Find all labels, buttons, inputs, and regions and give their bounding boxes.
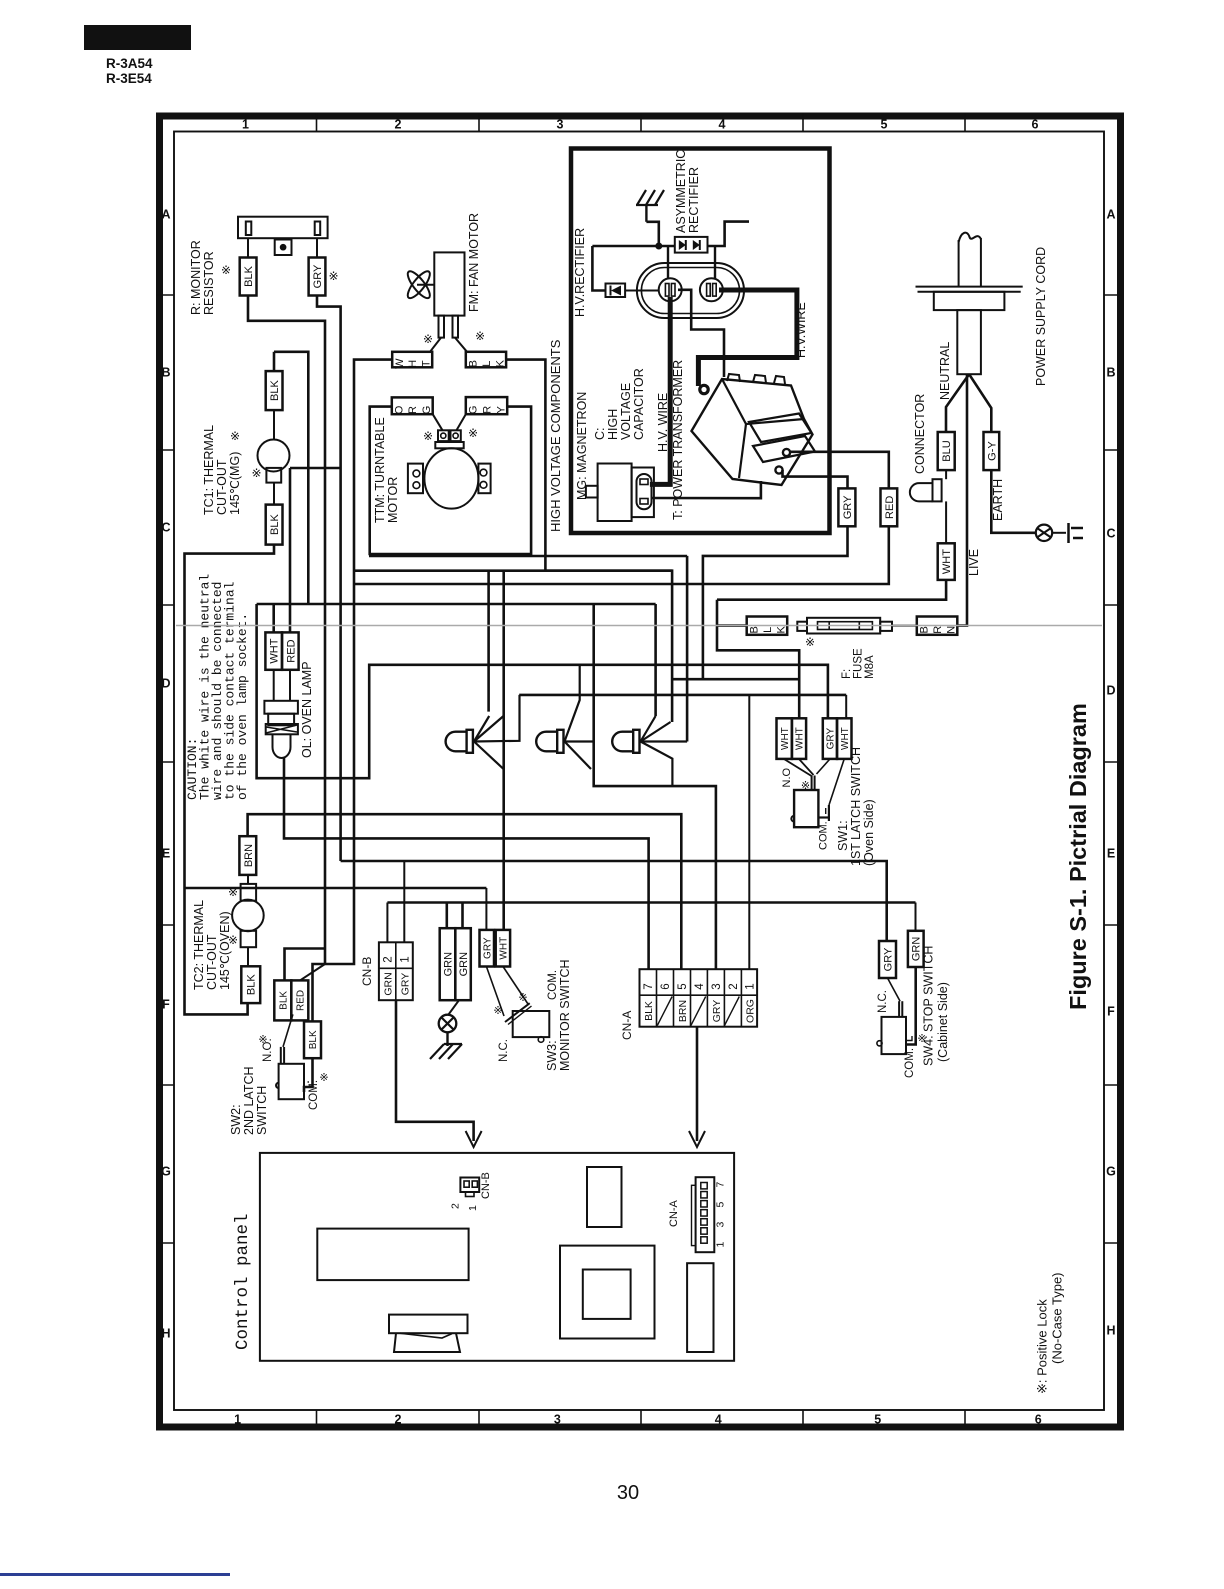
wire GRY bus over to SW4 GRY — [341, 861, 887, 941]
svg-text:5: 5 — [874, 1413, 881, 1427]
cord lower body — [957, 310, 981, 374]
svg-text:C: C — [161, 521, 170, 535]
svg-text:※: ※ — [228, 933, 238, 947]
switch SW3 body — [513, 1011, 550, 1037]
svg-text:FM: FAN MOTOR: FM: FAN MOTOR — [467, 213, 481, 312]
svg-text:BLU: BLU — [941, 440, 953, 461]
wire cord to G-Y — [969, 374, 991, 432]
wire into GRN a — [445, 903, 448, 929]
svg-text:R: R — [932, 626, 944, 634]
svg-text:D: D — [161, 677, 170, 691]
wire live riser to power cord — [957, 374, 967, 625]
wire down to H.V. rectifier diode — [592, 246, 605, 291]
svg-text:4: 4 — [719, 118, 726, 132]
svg-text:2: 2 — [449, 1203, 461, 1209]
svg-text:COM.: COM. — [904, 1048, 916, 1078]
wire label BRN (TC2) — [239, 836, 256, 875]
svg-text:BLK: BLK — [269, 514, 281, 535]
wire label WHT (fan) — [392, 352, 432, 368]
svg-text:1: 1 — [234, 1413, 241, 1427]
svg-text:N.C.: N.C. — [498, 1039, 510, 1062]
svg-text:MONITOR SWITCH: MONITOR SWITCH — [558, 959, 572, 1071]
svg-text:H: H — [1106, 1324, 1115, 1338]
TC2 lower terminal — [241, 931, 257, 947]
wire bus to SW1 WHT — [672, 679, 799, 718]
component block right — [687, 1263, 713, 1352]
wire GRN down to SW4 COM — [906, 967, 916, 1045]
wire label RED (oven lamp) — [282, 632, 299, 669]
svg-text:CUT-OUT: CUT-OUT — [215, 459, 229, 515]
inner border frame — [174, 132, 1104, 1411]
svg-text:VOLTAGE: VOLTAGE — [619, 383, 633, 440]
svg-text:C: C — [1106, 527, 1115, 541]
svg-text:L: L — [762, 627, 774, 633]
wire GRY to motor terminal — [457, 414, 466, 430]
turntable motor mount — [435, 442, 463, 448]
svg-text:WHT: WHT — [780, 727, 791, 750]
switch SW2 body — [279, 1064, 304, 1099]
svg-text:R: R — [407, 406, 419, 414]
wire to lamp socket — [273, 670, 275, 701]
svg-text:R-3A54: R-3A54 — [106, 56, 153, 71]
svg-text:1: 1 — [715, 1242, 727, 1248]
wire label GRN (SW4) — [908, 931, 924, 967]
fan blades — [404, 268, 433, 301]
wire label GRY (SW1) — [823, 718, 837, 759]
wire RED into oven lamp riser — [289, 468, 292, 632]
IC block inner — [583, 1270, 631, 1319]
svg-text:RESISTOR: RESISTOR — [202, 251, 216, 315]
wire bus h2 — [354, 569, 672, 572]
wire cord to BLU — [946, 374, 969, 432]
wire label BLK (TC2) — [241, 966, 260, 1003]
wire label WHT d (SW1) — [837, 718, 852, 759]
svg-text:LIVE: LIVE — [967, 549, 981, 576]
fuse F body — [807, 618, 880, 634]
connector CN-B block — [379, 942, 413, 1000]
capacitor left terminal — [659, 278, 682, 301]
svg-text:※: ※ — [468, 426, 478, 440]
svg-text:※: ※ — [423, 429, 433, 443]
svg-text:O: O — [394, 405, 406, 414]
svg-text:OL: OVEN LAMP: OL: OVEN LAMP — [300, 661, 314, 758]
wire fan to BLK — [455, 338, 467, 352]
capacitor right terminal — [700, 278, 723, 301]
fuse right cap — [880, 622, 892, 631]
connector CN-B on panel — [460, 1178, 479, 1193]
svg-text:N.O: N.O — [781, 768, 793, 788]
cord flange block — [934, 292, 1005, 310]
wire WHT into SW3 — [503, 967, 528, 1005]
svg-text:GRY: GRY — [482, 937, 493, 959]
svg-text:W: W — [394, 358, 406, 369]
svg-text:SW3:: SW3: — [545, 1040, 559, 1071]
svg-text:B: B — [748, 626, 760, 633]
resistor R body — [238, 217, 328, 239]
oven lamp OL circuit loop — [257, 604, 828, 778]
svg-text:G: G — [468, 406, 480, 415]
svg-text:TC2: THERMAL: TC2: THERMAL — [192, 900, 206, 990]
svg-text:BRN: BRN — [677, 1000, 689, 1022]
lamp L2 — [536, 732, 557, 752]
svg-text:1: 1 — [242, 118, 249, 132]
wire WHT into oven lamp — [272, 604, 275, 632]
svg-text:Control panel: Control panel — [233, 1213, 253, 1350]
svg-text:HIGH VOLTAGE COMPONENTS: HIGH VOLTAGE COMPONENTS — [548, 339, 563, 532]
svg-text:※: ※ — [493, 1005, 502, 1017]
svg-text:3: 3 — [715, 1222, 727, 1228]
power supply cord — [958, 240, 960, 287]
wire GRY transformer to SW1 bus — [703, 526, 848, 679]
wire diode to capacitor left terminal — [625, 290, 659, 292]
wire to SW2 BLK — [285, 949, 326, 981]
svg-text:A: A — [1106, 208, 1115, 222]
wire R right terminal to GRY — [316, 238, 318, 257]
asymmetric rectifier body — [675, 237, 708, 253]
wire WHT into SW1 COM — [829, 759, 844, 805]
svg-text:CAPACITOR: CAPACITOR — [632, 368, 646, 440]
svg-text:1ST LATCH SWITCH: 1ST LATCH SWITCH — [849, 747, 863, 866]
svg-text:BLK: BLK — [243, 265, 255, 286]
ribbon connector — [389, 1315, 468, 1334]
wire into GRN b — [461, 903, 464, 929]
svg-text:Figure S-1. Pictrial Diagram: Figure S-1. Pictrial Diagram — [1065, 703, 1091, 1010]
svg-text:Y: Y — [495, 406, 507, 414]
fan terminal left — [439, 316, 445, 338]
wire GRY riser SW3 — [485, 888, 487, 930]
wire label GRY (transformer) — [838, 488, 855, 526]
wire left bus from TC1 down to TC2 — [185, 545, 275, 1015]
svg-text:H: H — [407, 360, 419, 368]
magnetron tab — [586, 486, 598, 498]
resistor R center tap box with dot — [275, 240, 292, 256]
svg-text:(Oven Side): (Oven Side) — [862, 799, 876, 866]
wire BLK to staircase — [717, 624, 747, 627]
svg-text:3: 3 — [554, 1413, 561, 1427]
chassis ground symbol — [439, 1015, 457, 1033]
lamp L1 (oven/indicator) — [446, 732, 467, 752]
magnetron terminal section — [632, 468, 654, 518]
wire CN-A pin3 riser and bus — [594, 604, 716, 969]
wire fuse to BRN — [892, 625, 917, 627]
wire label BLK (monitor resistor) — [240, 258, 257, 296]
component block upper — [587, 1167, 622, 1227]
TC2 upper terminal — [241, 884, 257, 901]
svg-text:GRY: GRY — [312, 264, 324, 288]
wire BLK to SW2 COM — [304, 1058, 313, 1092]
svg-text:2: 2 — [383, 956, 395, 962]
wire label BLU — [938, 432, 955, 470]
TC1 terminal block — [266, 468, 281, 483]
lamp L2 leads — [565, 665, 580, 742]
wire label GRY (monitor resistor) — [309, 258, 326, 296]
arrow head CN-A — [689, 1131, 705, 1147]
switch SW4 body — [882, 1017, 907, 1054]
svg-text:6: 6 — [660, 983, 672, 989]
svg-text:H.V.WIRE: H.V.WIRE — [794, 302, 808, 358]
wire staircase to SW1 — [717, 600, 799, 680]
wire lamp1 riser from h2 — [487, 571, 490, 712]
fan terminal right — [453, 316, 459, 338]
svg-text:G: G — [1106, 1165, 1116, 1179]
svg-text:BLK: BLK — [246, 974, 258, 995]
wire lamp3 riser v19 — [654, 604, 657, 716]
wire G-Y to earth — [991, 470, 1036, 533]
svg-text:E: E — [1107, 847, 1115, 861]
svg-text:5: 5 — [715, 1202, 727, 1208]
svg-text:MOTOR: MOTOR — [386, 477, 400, 523]
wire lamp base contact to CN-A pin7 — [284, 758, 649, 969]
SW1 lever — [784, 759, 812, 776]
transformer top tabs — [727, 374, 740, 382]
svg-text:7: 7 — [643, 983, 655, 989]
HV capacitor body (stadium) — [637, 263, 744, 318]
lamp L3 — [612, 732, 633, 752]
wire label G-Y — [984, 432, 1000, 470]
wire label WHT b (SW1) — [792, 718, 806, 759]
svg-text:2: 2 — [395, 1413, 402, 1427]
wire WHT riser SW3 — [502, 571, 505, 930]
wire TC1 top over and down to oven lamp loop — [274, 352, 308, 604]
svg-text:COM.: COM. — [818, 821, 830, 850]
wire label RED (transformer) — [881, 488, 898, 526]
wire CN-A pin1 riser — [748, 695, 750, 969]
svg-text:BLK: BLK — [643, 1001, 655, 1021]
svg-text:CN-B: CN-B — [360, 957, 374, 986]
turntable motor left bracket — [408, 464, 423, 494]
svg-text:H.V. WIRE: H.V. WIRE — [656, 393, 670, 452]
magnetron body — [598, 464, 632, 522]
wire label WHT (SW3) — [496, 930, 510, 967]
svg-text:H: H — [161, 1327, 170, 1341]
svg-text:※: ※ — [801, 780, 810, 792]
thick H.V. wire left to magnetron — [650, 297, 670, 484]
svg-text:※: ※ — [221, 263, 231, 277]
svg-text:A: A — [161, 208, 170, 222]
wire asym rectifier left to capacitor — [667, 246, 669, 279]
svg-text:GRY: GRY — [400, 973, 412, 996]
svg-text:5: 5 — [881, 118, 888, 132]
chassis ground symbol (antenna) — [645, 205, 647, 222]
thermal cutout TC1 body — [258, 440, 290, 472]
svg-text:BRN: BRN — [243, 844, 255, 867]
svg-text:※: ※ — [518, 992, 527, 1004]
transformer terminal lugs — [783, 449, 790, 456]
wire label BLK (TC1) — [266, 371, 283, 410]
wire TC2 top to CN-A pin5 — [248, 814, 682, 969]
wire bus h1a — [369, 555, 687, 558]
turntable motor body — [424, 448, 478, 508]
svg-text:3: 3 — [557, 118, 564, 132]
grid row ticks right — [1104, 294, 1121, 296]
svg-text:F: F — [1107, 1005, 1115, 1019]
svg-text:G: G — [161, 1165, 171, 1179]
svg-text:SW1:: SW1: — [836, 820, 850, 851]
wire CN-B to control panel — [396, 1000, 474, 1141]
svg-text:2: 2 — [395, 118, 402, 132]
svg-text:N.C.: N.C. — [877, 990, 889, 1013]
svg-text:M8A: M8A — [864, 655, 876, 679]
svg-text:GRY: GRY — [882, 947, 894, 971]
svg-text:WHT: WHT — [941, 549, 953, 574]
svg-text:TTM: TURNTABLE: TTM: TURNTABLE — [373, 417, 387, 523]
svg-text:CUT-OUT: CUT-OUT — [205, 934, 219, 990]
svg-text:CN-A: CN-A — [620, 1011, 634, 1040]
svg-text:CONNECTOR: CONNECTOR — [913, 394, 927, 474]
arrow head CN-B — [466, 1131, 482, 1147]
oven lamp socket body — [268, 714, 294, 726]
svg-text:※: ※ — [251, 466, 261, 480]
svg-text:4: 4 — [694, 983, 706, 990]
svg-text:TC1: THERMAL: TC1: THERMAL — [202, 425, 216, 515]
svg-text:of the oven lamp socket.: of the oven lamp socket. — [235, 613, 250, 800]
svg-text:SW2:: SW2: — [229, 1104, 243, 1135]
wire RED to SW2 lever — [283, 1014, 293, 1047]
oven lamp bulb — [273, 734, 291, 758]
svg-text:EARTH: EARTH — [991, 479, 1005, 521]
svg-text:R: MONITOR: R: MONITOR — [189, 240, 203, 315]
wire capacitor to transformer HV tap — [678, 290, 724, 377]
turntable motor enclosure wire loop — [370, 407, 531, 554]
scanner streak artifact — [176, 625, 1102, 627]
svg-text:※: ※ — [230, 429, 240, 443]
switch SW1 body — [794, 790, 818, 827]
svg-text:H.V.RECTIFIER: H.V.RECTIFIER — [573, 228, 587, 317]
wire label GRY (SW3) — [480, 930, 495, 967]
wire label BLK (SW2) — [274, 980, 291, 1020]
earth terminal symbol — [1036, 525, 1052, 541]
svg-text:MG: MAGNETRON: MG: MAGNETRON — [575, 392, 589, 500]
svg-text:2ND LATCH: 2ND LATCH — [242, 1066, 256, 1135]
H.V. rectifier diode — [606, 284, 626, 298]
svg-text:K: K — [494, 359, 506, 367]
svg-text:4: 4 — [715, 1413, 722, 1427]
wire label WHT (oven lamp) — [265, 632, 282, 669]
wire label GRY (turntable) — [466, 397, 507, 414]
blue artifact line bottom left — [0, 1573, 230, 1576]
wire into SW1 WHT d — [845, 695, 847, 718]
wire BLK bus from monitor resistor down column — [248, 296, 325, 965]
svg-text:2: 2 — [728, 983, 740, 989]
wire bus to WHT connector — [717, 580, 946, 600]
svg-text:SW4: STOP SWITCH: SW4: STOP SWITCH — [922, 946, 936, 1066]
wire label WHT (live connector) — [938, 543, 955, 580]
svg-text:N.O.: N.O. — [262, 1038, 274, 1062]
grid column ticks top — [316, 113, 318, 132]
svg-text:WHT: WHT — [840, 727, 851, 750]
fan motor FM body — [434, 252, 464, 315]
svg-text:CN-A: CN-A — [668, 1199, 680, 1227]
wire ground to node — [646, 222, 658, 246]
svg-text:GRN: GRN — [442, 952, 454, 977]
svg-text:B: B — [1106, 366, 1115, 380]
svg-text:※: ※ — [475, 329, 485, 343]
svg-text:G-Y: G-Y — [986, 441, 998, 461]
svg-text:GRN: GRN — [458, 952, 470, 977]
wire ORG to motor terminal — [433, 414, 443, 430]
wire RED riser to GRY bus — [290, 467, 341, 470]
svg-text:N: N — [946, 626, 958, 634]
wire fan to WHT — [430, 338, 441, 352]
svg-text:1: 1 — [400, 956, 412, 962]
svg-text:SWITCH: SWITCH — [255, 1086, 269, 1135]
wire transformer to magnetron filament — [653, 481, 761, 498]
svg-text:GRN: GRN — [383, 972, 395, 995]
connector CN-A block — [640, 969, 758, 1026]
display window — [317, 1229, 468, 1281]
svg-text:(No-Case Type): (No-Case Type) — [1050, 1272, 1065, 1364]
svg-text:F: F — [162, 998, 170, 1012]
wire R left terminal to BLK — [247, 238, 249, 257]
wire bus h_c — [519, 694, 846, 697]
outer border frame — [160, 116, 1121, 1427]
svg-text:R-3E54: R-3E54 — [106, 71, 152, 86]
wire label BLK (TC1 lower) — [266, 505, 283, 545]
lamp L1 leads — [474, 716, 489, 742]
wire bus h4b oven lamp white line — [257, 603, 656, 606]
svg-text:FUSE: FUSE — [853, 648, 865, 679]
svg-text:6: 6 — [1035, 1413, 1042, 1427]
svg-text:145℃(OVEN): 145℃(OVEN) — [218, 911, 232, 990]
wire BRN to TC2 — [247, 875, 249, 884]
thermal cutout TC2 body — [232, 900, 264, 932]
wire GRY into SW1 — [817, 759, 830, 774]
lamp L3 leads — [641, 716, 656, 742]
wire CN-B pin2 riser — [386, 903, 388, 943]
wire label BLK (fuse) — [747, 617, 788, 635]
wire stub top right — [707, 222, 750, 246]
wire label RED (SW2) — [291, 980, 308, 1020]
svg-text:GRY: GRY — [842, 495, 854, 519]
svg-text:ASYMMETRIC: ASYMMETRIC — [674, 150, 688, 233]
turntable motor right bracket — [478, 464, 490, 494]
svg-text:5: 5 — [677, 983, 689, 989]
SW3 lever — [505, 1003, 530, 1022]
svg-text:BLK: BLK — [269, 380, 281, 401]
wire bus h902 — [387, 901, 915, 904]
svg-text:※: ※ — [319, 1072, 328, 1084]
wire bus to SW3 GRY — [185, 887, 487, 890]
wire CN-A to control panel — [696, 1027, 699, 1141]
svg-text:GRY: GRY — [711, 1000, 723, 1023]
wire diagonal to SW2 RED — [300, 964, 325, 980]
wire label GRY (SW4) — [879, 941, 896, 978]
grid column ticks bottom — [316, 1410, 318, 1427]
svg-text:L: L — [481, 361, 493, 367]
connector CN-A on panel — [696, 1177, 715, 1252]
svg-text:G: G — [421, 406, 433, 415]
wire label BLK (fan) — [466, 352, 506, 368]
svg-text:B: B — [161, 366, 170, 380]
SW4 lever diagonal — [888, 978, 901, 1001]
wire into TC1 BLK — [273, 352, 276, 371]
svg-text:POWER SUPPLY CORD: POWER SUPPLY CORD — [1034, 247, 1048, 386]
wire TC1 to BLK lower — [273, 483, 275, 505]
svg-text:145℃(MG): 145℃(MG) — [228, 452, 242, 515]
wire label BRN (live) — [917, 617, 958, 635]
wire label ORG (turntable) — [392, 397, 433, 414]
wire BLK fan bus down to lamp3 — [506, 360, 672, 722]
oven lamp screw base hatched — [266, 724, 298, 734]
turntable motor terminals — [438, 430, 449, 441]
wire transformer to GRY — [783, 470, 848, 488]
svg-text:T: T — [420, 360, 432, 367]
H.V. wire terminal hook — [700, 385, 708, 393]
fuse left cap — [797, 622, 807, 631]
svg-text:RED: RED — [884, 496, 896, 519]
wire GRY into SW3 — [486, 967, 504, 1017]
svg-text:NEUTRAL: NEUTRAL — [938, 342, 952, 400]
